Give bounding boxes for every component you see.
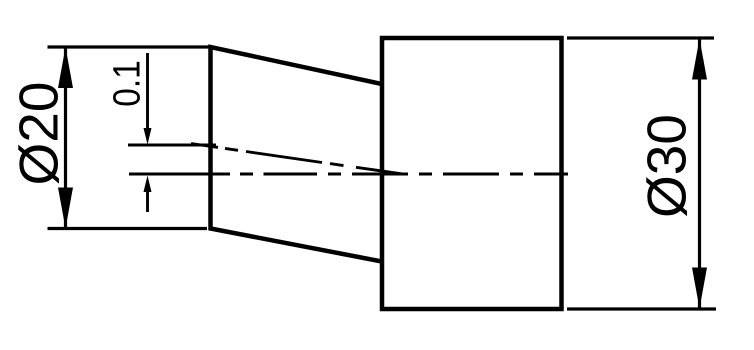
extension line bottom (Ø30) <box>567 307 716 310</box>
arrowhead down (Ø20) <box>58 188 73 229</box>
arrowhead down (0.1) <box>144 128 152 145</box>
extension line (0.1, cone axis end) <box>128 144 216 147</box>
extension line top (Ø30) <box>567 36 714 39</box>
extension line bottom (Ø20) <box>48 227 208 230</box>
arrowhead down (Ø30) <box>692 268 707 309</box>
svg-text:0.1: 0.1 <box>106 60 148 106</box>
cylinder body (right, Ø30) <box>382 38 562 309</box>
svg-text:Ø20: Ø20 <box>8 82 70 186</box>
dimension line (Ø20) <box>64 47 67 229</box>
arrowhead up (0.1) <box>144 176 152 193</box>
tapered cone body (left, Ø20) <box>211 47 383 262</box>
extension line top (Ø20) <box>48 45 212 48</box>
dimension line upper (0.1) <box>146 53 149 130</box>
centerline horizontal (cylinder axis) <box>129 173 568 176</box>
svg-text:Ø30: Ø30 <box>636 114 698 218</box>
dimension line lower (0.1) <box>146 191 149 212</box>
dimension line (Ø30) <box>698 39 701 309</box>
arrowhead up (Ø30) <box>692 39 707 80</box>
arrowhead up (Ø20) <box>58 47 73 88</box>
centerline tilted (cone axis) <box>191 144 403 175</box>
